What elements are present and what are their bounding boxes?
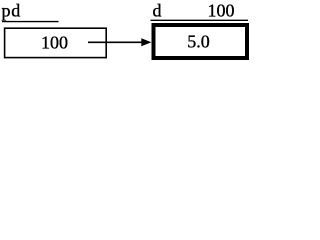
underline under d 100 [151, 19, 249, 21]
box d (thick right box) [154, 25, 248, 58]
svg-text:100: 100 [208, 1, 235, 21]
box pd (left box) [5, 28, 107, 57]
svg-text:d: d [153, 1, 162, 21]
svg-text:pd: pd [2, 1, 22, 21]
svg-text:100: 100 [41, 33, 68, 53]
underline under pd [2, 21, 59, 23]
svg-text:5.0: 5.0 [187, 32, 210, 52]
background [0, 0, 252, 65]
arrowhead [141, 38, 151, 46]
wire arrow shaft [88, 41, 144, 43]
